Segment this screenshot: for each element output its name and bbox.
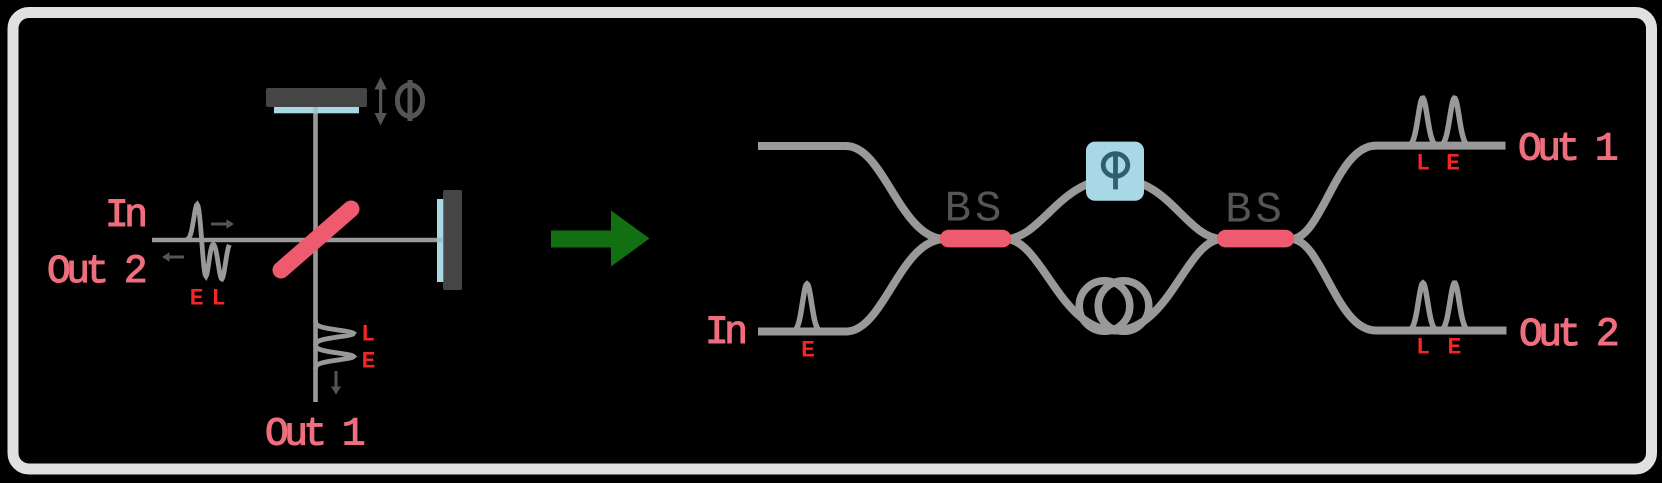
svg-text:E: E: [362, 349, 376, 375]
svg-text:Out 2: Out 2: [47, 249, 145, 294]
svg-text:E: E: [1447, 334, 1461, 360]
svg-text:BS: BS: [945, 185, 1006, 235]
svg-text:L: L: [361, 322, 375, 348]
svg-text:Out 2: Out 2: [1519, 312, 1617, 357]
svg-text:L: L: [1416, 150, 1430, 176]
svg-text:E: E: [1446, 150, 1460, 176]
svg-text:Out 1: Out 1: [265, 412, 364, 457]
svg-text:BS: BS: [1225, 186, 1286, 236]
svg-text:L: L: [212, 286, 226, 312]
svg-text:In: In: [705, 310, 745, 355]
svg-text:Out 1: Out 1: [1518, 127, 1617, 172]
svg-text:E: E: [190, 286, 204, 312]
svg-text:In: In: [105, 193, 145, 238]
svg-text:L: L: [1416, 334, 1430, 360]
svg-text:E: E: [801, 338, 815, 364]
